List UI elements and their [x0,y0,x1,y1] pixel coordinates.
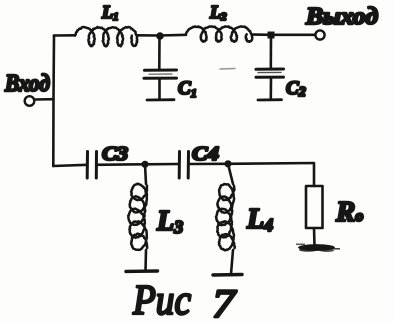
ground L4 [213,273,242,277]
svg-text:C3: C3 [102,143,128,165]
wire L4 bottom lead [231,250,233,274]
ground R0 blob [296,244,340,253]
capacitor C3 [87,152,96,179]
wire C3 to node C [97,163,146,166]
capacitor C4 [179,152,188,179]
output terminal circle [315,30,324,39]
wire left vertical (input bus) [52,36,55,167]
node B junction dot [268,32,275,39]
svg-text:Рис: Рис [132,278,191,322]
wire L1 to node A [137,34,160,37]
inductor L1 [75,27,137,46]
wire R0 bottom lead [313,228,316,246]
wire C4 to node D [189,163,229,166]
wire L4 top lead [228,164,233,184]
inductor L2 [186,26,253,42]
resistor R0 [306,186,323,228]
wire node D to R0 branch [228,163,314,186]
svg-text:Вход: Вход [4,71,50,97]
stray pencil dash [220,68,235,71]
svg-text:C2: C2 [286,78,306,100]
capacitor C1 [144,70,177,100]
wire node B to output terminal [271,33,315,36]
svg-text:L3: L3 [156,206,183,237]
inductor L4 [216,184,235,250]
capacitor C2 [256,69,284,100]
wire top rail left segment [54,34,75,37]
node A junction dot [156,32,164,40]
input terminal circle [25,96,35,106]
node C junction dot [141,161,148,168]
inductor L3 [128,184,147,250]
svg-text:Ro: Ro [335,196,363,228]
wire L3 bottom lead [144,250,147,271]
wire node A to L2 [160,33,186,36]
wire lower rail left segment [53,165,87,166]
svg-text:L1: L1 [101,2,119,23]
svg-text:L4: L4 [246,204,273,235]
ground L3 [126,269,158,273]
wire C2 lead from node B [269,36,272,69]
svg-text:C4: C4 [192,143,219,165]
wire L3 top lead [145,164,146,184]
wire C1 lead from node A [158,36,161,70]
wire L2 to node B [252,33,271,36]
node D junction dot [224,160,231,167]
wire node C to C4 [145,163,179,166]
svg-text:7: 7 [212,281,237,322]
svg-text:Выход: Выход [305,4,378,30]
wire input stub [35,98,54,101]
svg-text:L2: L2 [209,2,227,23]
svg-text:C1: C1 [178,78,197,100]
